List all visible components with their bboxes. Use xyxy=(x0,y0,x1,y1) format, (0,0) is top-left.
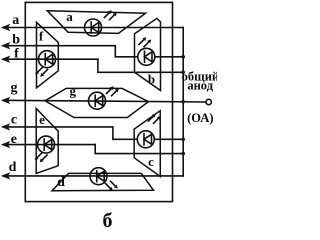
segment a outline xyxy=(47,11,145,34)
LED a xyxy=(85,19,102,36)
LED g light arrows xyxy=(107,86,119,96)
svg-text:e: e xyxy=(39,112,45,127)
svg-text:(ОА): (ОА) xyxy=(187,111,213,125)
segment c outline xyxy=(134,111,160,177)
wire LED b anode to rail xyxy=(155,56,183,58)
LED f light arrows xyxy=(35,67,47,77)
segment f outline xyxy=(37,22,59,88)
svg-text:g: g xyxy=(11,80,18,95)
svg-text:c: c xyxy=(148,154,154,169)
pin arrow e xyxy=(1,141,11,148)
svg-text:f: f xyxy=(39,29,44,44)
pin arrow g xyxy=(1,97,11,104)
junction rail-f xyxy=(181,71,185,75)
svg-text:b: b xyxy=(12,33,20,48)
pin arrow d xyxy=(1,172,11,179)
segment d outline xyxy=(52,173,154,190)
OA terminal xyxy=(206,99,211,104)
svg-text:d: d xyxy=(57,175,65,190)
LED e light arrows xyxy=(35,153,47,163)
wire lead e xyxy=(4,144,96,146)
LED f xyxy=(39,51,56,68)
display body outer box xyxy=(25,2,172,201)
LED b light arrows xyxy=(139,37,151,47)
svg-text:c: c xyxy=(11,112,17,127)
wire lead f xyxy=(4,58,98,60)
svg-text:e: e xyxy=(11,132,17,147)
segment b outline xyxy=(135,18,161,90)
pin arrow b xyxy=(1,42,11,49)
segment g outline xyxy=(45,88,149,117)
LED a light arrows xyxy=(105,10,117,20)
junction rail-b xyxy=(181,55,185,59)
svg-text:b: b xyxy=(148,72,155,87)
junction rail-g xyxy=(181,100,185,104)
svg-text:g: g xyxy=(70,84,77,99)
svg-text:б: б xyxy=(103,210,113,229)
svg-text:f: f xyxy=(14,47,19,62)
svg-text:анод: анод xyxy=(187,78,213,92)
wire LED c anode to rail xyxy=(154,138,183,140)
LED c light arrows xyxy=(149,114,161,124)
wire LED f anode to rail xyxy=(98,59,183,72)
pin arrow a xyxy=(1,24,11,31)
pin arrow c xyxy=(1,123,11,130)
pin arrow f xyxy=(1,56,11,63)
wire lead b xyxy=(4,46,138,57)
wire lead c xyxy=(4,127,138,139)
wire LED e anode to rail xyxy=(95,145,183,154)
LED e xyxy=(38,136,55,153)
junction rail-c xyxy=(181,138,185,142)
LED c xyxy=(137,131,154,148)
segment e outline xyxy=(36,109,58,174)
wire lead g through LED g to OA terminal xyxy=(4,100,206,102)
svg-text:d: d xyxy=(9,160,17,175)
junction rail-e xyxy=(181,152,185,156)
svg-text:a: a xyxy=(66,9,73,24)
svg-text:a: a xyxy=(12,13,19,28)
wire lead a (cathode LED a to pin a) xyxy=(4,27,184,29)
LED d light arrows xyxy=(106,181,118,191)
LED d xyxy=(90,168,107,185)
LED b xyxy=(138,48,155,65)
LED g xyxy=(89,92,106,109)
common anode rail xyxy=(182,28,184,176)
wire lead d through LED d to rail xyxy=(4,175,184,177)
